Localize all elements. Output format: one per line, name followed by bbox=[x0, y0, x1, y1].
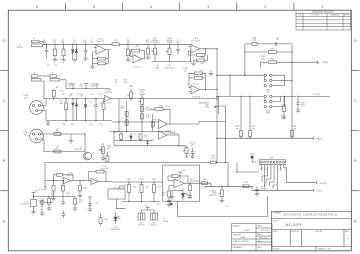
resistor R20 bbox=[151, 122, 154, 127]
svg-text:C4B: C4B bbox=[203, 179, 208, 181]
wire out bus bbox=[205, 183, 228, 186]
svg-text:H.KIM: H.KIM bbox=[240, 237, 246, 239]
svg-text:TL072CP: TL072CP bbox=[192, 97, 201, 99]
capacitor C1 bbox=[46, 44, 48, 50]
capacitor C21 bbox=[147, 141, 149, 145]
svg-text:C: C bbox=[3, 98, 6, 103]
op-amp IC3-A bbox=[159, 120, 168, 129]
wire sw1 out rows bbox=[272, 75, 285, 85]
resistor R1 bbox=[54, 44, 56, 49]
title block outline bbox=[271, 211, 351, 251]
svg-text:MID: MID bbox=[129, 86, 133, 88]
wire IC2-B out bbox=[200, 89, 218, 91]
svg-text:D: D bbox=[354, 38, 357, 43]
svg-text:47U: 47U bbox=[79, 202, 83, 204]
revision record table bbox=[296, 10, 350, 30]
svg-text:100/16: 100/16 bbox=[38, 201, 45, 203]
diode D3 bbox=[72, 99, 74, 103]
capacitor C31 bbox=[62, 181, 64, 186]
ground U2 bbox=[167, 205, 172, 208]
svg-text:CH-OUT: CH-OUT bbox=[319, 183, 328, 185]
svg-text:RED: RED bbox=[188, 198, 193, 200]
labels chorus row bbox=[39, 166, 229, 207]
wire bottom bus bbox=[112, 181, 163, 184]
resistor R45 bbox=[79, 181, 81, 186]
svg-text:(2): (2) bbox=[226, 206, 229, 208]
resistor R73 bbox=[283, 96, 285, 105]
resistor R21 feedback bbox=[155, 108, 163, 111]
resistor R13 on middle rung bbox=[268, 51, 276, 54]
right zone tick A/B bbox=[351, 190, 359, 192]
wire IC3-A out to balance bbox=[174, 122, 199, 125]
+15V flag left bbox=[32, 193, 36, 197]
wire middle rung bbox=[245, 51, 292, 53]
wire right bus out bbox=[298, 95, 330, 97]
svg-text:DWG NO: DWG NO bbox=[315, 231, 323, 233]
wire xlr2 upper bbox=[41, 133, 85, 135]
svg-text:455 KC: 455 KC bbox=[138, 225, 145, 227]
svg-text:70UH: 70UH bbox=[163, 221, 169, 223]
ground R1 bbox=[53, 60, 58, 63]
wire main preamp bus bbox=[43, 43, 113, 45]
wire VR out bbox=[252, 186, 313, 190]
wire right rail bbox=[291, 44, 293, 138]
wire tone bottom bus bbox=[110, 131, 170, 133]
capacitor C13 bbox=[125, 112, 128, 117]
svg-text:VOLUME: VOLUME bbox=[151, 42, 160, 44]
svg-text:TRI-CHLB: TRI-CHLB bbox=[164, 67, 174, 69]
svg-text:TITLE: TITLE bbox=[272, 221, 278, 223]
labels top right cluster bbox=[252, 37, 329, 64]
wire led bus bbox=[172, 190, 183, 192]
svg-text:500KB: 500KB bbox=[139, 94, 146, 96]
svg-text:FSCM NO: FSCM NO bbox=[291, 231, 300, 233]
svg-text:TW1-A: TW1-A bbox=[316, 137, 323, 140]
svg-text:4.7U: 4.7U bbox=[202, 187, 207, 189]
svg-text:TO PL4: TO PL4 bbox=[313, 94, 321, 96]
wire bundle left long bbox=[237, 163, 259, 173]
resistor R58 bbox=[189, 183, 191, 185]
labels row2 bbox=[24, 73, 113, 152]
resistor R44 feedback bbox=[104, 172, 106, 182]
svg-text:TL072CP: TL072CP bbox=[100, 168, 109, 170]
labels osc bbox=[105, 169, 287, 231]
ground lower bus bbox=[47, 121, 49, 123]
svg-text:D: D bbox=[3, 38, 6, 43]
+15V flag U2 bbox=[178, 172, 182, 180]
capacitor C8 bbox=[177, 44, 179, 49]
svg-text:TW1-B: TW1-B bbox=[322, 62, 329, 64]
svg-text:2SC945: 2SC945 bbox=[75, 149, 83, 151]
op-amp IC1-A bbox=[96, 45, 106, 54]
svg-text:B: B bbox=[354, 158, 357, 163]
svg-text:A: A bbox=[354, 218, 357, 223]
wire ch2 bus lower bbox=[46, 120, 112, 122]
fx loop pot left bbox=[107, 152, 109, 156]
wire pins to bundle bbox=[276, 185, 278, 190]
svg-text:C1B: C1B bbox=[159, 106, 164, 108]
chorus pcb outline bottom bbox=[178, 196, 268, 217]
capacitor C61 bbox=[74, 197, 76, 199]
wire stub x260 bbox=[259, 62, 261, 68]
resistor R28 bbox=[240, 131, 243, 137]
wire chorus in bbox=[45, 180, 64, 182]
labels power bbox=[20, 191, 98, 206]
wire sw2 outs bbox=[272, 95, 297, 97]
XLR connector X1 bbox=[30, 101, 44, 115]
wire balance lower bbox=[199, 121, 226, 123]
svg-text:TL072CP: TL072CP bbox=[191, 40, 200, 42]
wire chorus box top bbox=[45, 163, 228, 189]
power rail stubs top bbox=[71, 84, 75, 89]
capacitor C53 bbox=[170, 195, 174, 197]
capacitor C49 bbox=[256, 186, 258, 189]
ground regulator bbox=[31, 212, 36, 215]
U2 module box bbox=[163, 165, 200, 201]
resistor R2 bbox=[63, 44, 65, 49]
svg-text:SHEET 1 OF 1: SHEET 1 OF 1 bbox=[318, 249, 332, 251]
svg-text:ECO NO: ECO NO bbox=[311, 15, 319, 17]
wire tone node bbox=[118, 99, 120, 132]
svg-text:455 KC: 455 KC bbox=[151, 225, 158, 227]
svg-text:(5 VR-1: (5 VR-1 bbox=[316, 191, 324, 193]
svg-text:1: 1 bbox=[321, 4, 323, 9]
resistor R10 feedback bbox=[132, 49, 140, 52]
svg-text:TONE: TONE bbox=[167, 42, 173, 44]
resistor R15 bbox=[197, 59, 205, 62]
svg-text:(7): (7) bbox=[124, 185, 127, 187]
svg-text:TL072CP: TL072CP bbox=[66, 175, 75, 177]
XLR connector X2 bbox=[30, 129, 44, 143]
resistor R14 feedback bbox=[205, 49, 207, 55]
u/d0 net dot bbox=[251, 156, 253, 158]
resistor R42 bbox=[53, 181, 55, 186]
oscillator coil T2 bbox=[151, 213, 158, 220]
diode D2 bbox=[75, 44, 77, 49]
wire reg bus bbox=[34, 196, 76, 198]
potentiometer VR1 volume bbox=[154, 44, 156, 48]
op-amp IC1-B bbox=[133, 55, 142, 64]
svg-text:IC2-B: IC2-B bbox=[193, 84, 199, 86]
junctions row2 bbox=[53, 88, 97, 135]
svg-text:DATE: DATE bbox=[257, 240, 262, 243]
svg-text:1991-10-2: 1991-10-2 bbox=[259, 237, 268, 239]
right zone tick C/D bbox=[351, 69, 359, 71]
svg-text:6: 6 bbox=[36, 4, 38, 9]
capacitor C5 bbox=[95, 99, 97, 105]
wire ladder top rung bbox=[245, 43, 292, 45]
capacitor C3B bbox=[63, 211, 65, 214]
labels tone stack bbox=[114, 80, 175, 135]
wire pot sub bus bbox=[152, 61, 191, 63]
svg-text:47N: 47N bbox=[176, 42, 180, 44]
op-amp IC2-B bbox=[191, 85, 200, 93]
terminal TW1-A bbox=[313, 137, 314, 139]
wire vert x250 bbox=[249, 96, 251, 130]
svg-text:A: A bbox=[3, 218, 6, 223]
cluster pot VR3 bbox=[102, 143, 104, 147]
op-amp IC2-A bbox=[191, 45, 200, 54]
junctions connector bbox=[216, 138, 292, 187]
svg-text:INPUT: INPUT bbox=[17, 47, 24, 49]
wire CH-OUT bbox=[287, 182, 317, 184]
svg-text:5: 5 bbox=[93, 4, 95, 9]
labels switches bbox=[199, 89, 321, 130]
svg-text:0.775MV: 0.775MV bbox=[20, 204, 29, 206]
junction dots row1 bbox=[46, 44, 218, 63]
oscillator coil T1 bbox=[142, 210, 155, 213]
svg-text:IC1-B: IC1-B bbox=[134, 67, 140, 69]
wire IC1-A feedback bbox=[106, 50, 109, 59]
wire IC4 row lower bus bbox=[114, 145, 168, 147]
junctions chorus bbox=[53, 162, 229, 202]
labels IC4 row bbox=[98, 132, 215, 161]
resistor R50 series bbox=[243, 185, 249, 188]
approvals block bbox=[232, 224, 272, 251]
wire x228 drop bbox=[227, 163, 229, 187]
ground IC2-B bbox=[209, 74, 214, 77]
svg-text:33N: 33N bbox=[120, 108, 124, 110]
potentiometer VR6 balance bbox=[218, 96, 220, 114]
capacitor C60 bbox=[48, 197, 50, 199]
resistor R29 bbox=[249, 131, 252, 137]
op-amp IC5-B bbox=[91, 178, 98, 184]
diode D5 bbox=[85, 99, 87, 104]
svg-text:CHANGED: CHANGED bbox=[330, 14, 340, 17]
wire left rail bbox=[244, 44, 246, 75]
wire lower rung TW1-B bbox=[260, 61, 316, 63]
wire balance bus bbox=[216, 95, 264, 97]
svg-text:DEPTH: DEPTH bbox=[209, 195, 216, 197]
top zone tick 2/3 bbox=[236, 3, 238, 11]
resistor R55 feedback U2 bbox=[168, 176, 172, 180]
top zone tick 1/2 bbox=[293, 3, 295, 11]
capacitor C46 bbox=[297, 96, 299, 102]
resistor R16 series bbox=[54, 133, 61, 136]
svg-text:APPD: APPD bbox=[344, 14, 350, 17]
capacitor C33 stub bbox=[190, 148, 195, 159]
resistor R5 bbox=[98, 62, 106, 65]
resistor R41 feedback bbox=[62, 175, 73, 181]
wire vert x241 bbox=[240, 96, 242, 130]
resistor R18 bbox=[141, 114, 144, 119]
svg-text:2: 2 bbox=[264, 4, 266, 9]
wire tone to IC4 row bbox=[113, 132, 115, 146]
svg-text:WOOSUNG CHORUS RESEARCH: WOOSUNG CHORUS RESEARCH bbox=[284, 213, 338, 217]
IC6 MN3101 block bbox=[108, 189, 125, 199]
top zone tick 3/4 bbox=[179, 3, 181, 11]
LED D13 bbox=[115, 212, 117, 217]
wire chorus out to connector bbox=[228, 185, 252, 187]
junction top right bbox=[244, 51, 292, 76]
resistor R56 bbox=[168, 186, 170, 192]
wire sw1 row1 bbox=[217, 74, 264, 76]
LED D12 bbox=[182, 189, 184, 194]
junctions IC2-B bbox=[205, 89, 218, 99]
op-amp IC1-B second stage bbox=[105, 95, 111, 101]
capacitor C38 bbox=[167, 199, 171, 201]
svg-text:1/50BP: 1/50BP bbox=[260, 189, 267, 191]
svg-text:RED GRN: RED GRN bbox=[111, 229, 121, 231]
junctions tone bbox=[118, 121, 153, 132]
resistor R12a drop bbox=[147, 44, 149, 48]
svg-text:1M: 1M bbox=[70, 94, 73, 96]
svg-text:1UB: 1UB bbox=[252, 40, 257, 42]
left zone tick C/D bbox=[1, 69, 9, 71]
resistor R17 series lower bbox=[54, 150, 61, 153]
resistor R12 bbox=[103, 99, 105, 103]
svg-text:(3): (3) bbox=[170, 204, 173, 206]
capacitor C39 series bbox=[202, 182, 208, 185]
svg-text:D5 D6: D5 D6 bbox=[77, 94, 84, 96]
svg-text:47N: 47N bbox=[42, 42, 46, 44]
wire TW1-A horizontal bbox=[217, 137, 313, 139]
svg-text:B: B bbox=[3, 158, 6, 163]
left zone tick B/C bbox=[1, 130, 9, 132]
neon lamp NE1 bbox=[100, 213, 102, 218]
junctions IC4 row bbox=[113, 131, 226, 163]
middle pot VR5 bbox=[130, 89, 132, 92]
svg-text:4.1K: 4.1K bbox=[146, 117, 151, 119]
diode D7 bbox=[130, 139, 132, 142]
svg-text:33N: 33N bbox=[301, 105, 305, 107]
ground R2 bbox=[61, 60, 66, 63]
jack J4 channel2b bbox=[50, 75, 57, 77]
op-amp U2 MC4558 bbox=[174, 179, 185, 188]
svg-text:TL072CP: TL072CP bbox=[170, 134, 179, 136]
resistor R58b on lower rung bbox=[268, 61, 276, 64]
wire xlr2 lower bbox=[38, 139, 85, 152]
wire ch2 bus mid bbox=[43, 81, 218, 98]
top zone tick 4/5 bbox=[122, 3, 124, 11]
potentiometer VR2 bbox=[169, 44, 171, 48]
svg-text:AC-50R: AC-50R bbox=[286, 222, 302, 227]
svg-text:SCALE: SCALE bbox=[273, 248, 280, 251]
svg-text:(7): (7) bbox=[279, 169, 282, 171]
svg-text:DRAWN: DRAWN bbox=[233, 224, 240, 227]
transistor Q1 bbox=[84, 134, 86, 152]
jack J1 input bbox=[32, 40, 40, 43]
jack J2 channel2 bbox=[32, 75, 39, 77]
svg-text:REVISION RECORD: REVISION RECORD bbox=[312, 12, 334, 14]
svg-text:47U: 47U bbox=[79, 86, 83, 88]
capacitor C62 bbox=[89, 200, 91, 204]
capacitor C51 bbox=[141, 182, 143, 185]
ground IC1-A bbox=[90, 66, 95, 69]
resistor R57 series on box wire bbox=[211, 161, 217, 164]
capacitor C2 bbox=[85, 44, 87, 50]
wire IC4 row upper bus bbox=[114, 140, 153, 142]
svg-text:R5B: R5B bbox=[270, 59, 275, 61]
terminal CH-OUT bbox=[316, 181, 317, 183]
regulator IC7 bbox=[33, 197, 35, 200]
ground D1 D2 bbox=[72, 60, 77, 63]
wire vertical bus x217 bbox=[216, 49, 218, 163]
capacitor C47 on top rung bbox=[274, 42, 276, 46]
svg-text:+15V: +15V bbox=[181, 170, 186, 172]
resistor R23 bbox=[120, 140, 122, 141]
svg-text:RELEASED: RELEASED bbox=[233, 246, 243, 249]
capacitor C19 above bbox=[195, 72, 203, 75]
top zone tick 5/6 bbox=[64, 3, 66, 11]
right zone tick B/C bbox=[351, 130, 359, 132]
svg-text:E.SUS: E.SUS bbox=[244, 230, 250, 232]
wire preamp bus right bbox=[119, 43, 191, 45]
capacitor C52 bbox=[153, 182, 155, 185]
svg-text:(6): (6) bbox=[157, 204, 160, 206]
svg-text:CHECKED: CHECKED bbox=[233, 234, 242, 236]
svg-text:QUALITY CONTROL: QUALITY CONTROL bbox=[233, 240, 250, 243]
terminal VR bbox=[313, 189, 314, 191]
svg-text:IC6 MN3101: IC6 MN3101 bbox=[113, 188, 125, 190]
labels connector bbox=[244, 126, 327, 192]
connector CN1 header bbox=[259, 160, 286, 165]
wire ch2 bus upper bbox=[66, 80, 110, 89]
capacitor C1B on top rung bbox=[252, 43, 257, 46]
resistor R11 drop bbox=[65, 99, 67, 103]
svg-text:REV: REV bbox=[266, 113, 271, 115]
resistor R9 drop bbox=[127, 44, 129, 49]
svg-text:TL072CP: TL072CP bbox=[104, 92, 113, 94]
svg-text:C: C bbox=[354, 98, 357, 103]
svg-text:+15V: +15V bbox=[34, 191, 39, 193]
resistor R7 series bbox=[112, 43, 119, 46]
wire balance tap down bbox=[225, 122, 227, 163]
junctions switches bbox=[216, 75, 298, 98]
resistor R8 bbox=[52, 90, 55, 97]
resistor R22 feedback bbox=[195, 77, 203, 80]
resistor R19 bbox=[141, 106, 144, 111]
connector pin wires bbox=[260, 165, 262, 171]
svg-text:560K: 560K bbox=[281, 117, 286, 119]
svg-text:3: 3 bbox=[207, 4, 209, 9]
svg-text:(7): (7) bbox=[145, 205, 148, 207]
potentiometer VR8 depth bbox=[221, 186, 223, 190]
svg-text:1M: 1M bbox=[53, 42, 56, 44]
svg-text:DATE: DATE bbox=[257, 224, 262, 227]
ground mid bbox=[69, 134, 74, 143]
svg-text:1991-10-2: 1991-10-2 bbox=[261, 230, 270, 232]
svg-text:DATE: DATE bbox=[257, 233, 262, 236]
resistor R38 bbox=[291, 131, 294, 137]
svg-text:COMPANY: COMPANY bbox=[272, 212, 282, 215]
svg-text:47N: 47N bbox=[99, 124, 103, 126]
resistor R24 bbox=[140, 139, 142, 142]
labels row1 bbox=[17, 37, 205, 72]
svg-text:470P: 470P bbox=[83, 42, 88, 44]
test jack TP2 bbox=[40, 201, 44, 205]
svg-text:(4B): (4B) bbox=[155, 67, 159, 69]
wire IC2-A out bbox=[200, 48, 218, 50]
capacitor C15 bbox=[125, 120, 128, 125]
switch SW2 contacts bbox=[264, 95, 266, 97]
wire x230 drop bbox=[229, 75, 231, 96]
svg-text:220K: 220K bbox=[91, 86, 96, 88]
labels IC2-B bbox=[192, 70, 204, 98]
junctions power bbox=[33, 196, 50, 197]
op-amp IC5-A bbox=[64, 177, 71, 183]
wire osc ground bus bbox=[122, 201, 160, 203]
svg-text:DATE: DATE bbox=[257, 246, 262, 249]
left zone tick A/B bbox=[1, 190, 9, 192]
diode D1 bbox=[72, 44, 74, 49]
diode D4 bbox=[76, 99, 78, 103]
resistor R4 feedback bbox=[98, 57, 106, 60]
treble pot VR4 bbox=[141, 95, 143, 99]
svg-text:TL072CP: TL072CP bbox=[96, 41, 105, 43]
op-amp IC4-B bbox=[159, 131, 168, 139]
potentiometer VR7 stby bbox=[186, 146, 188, 148]
